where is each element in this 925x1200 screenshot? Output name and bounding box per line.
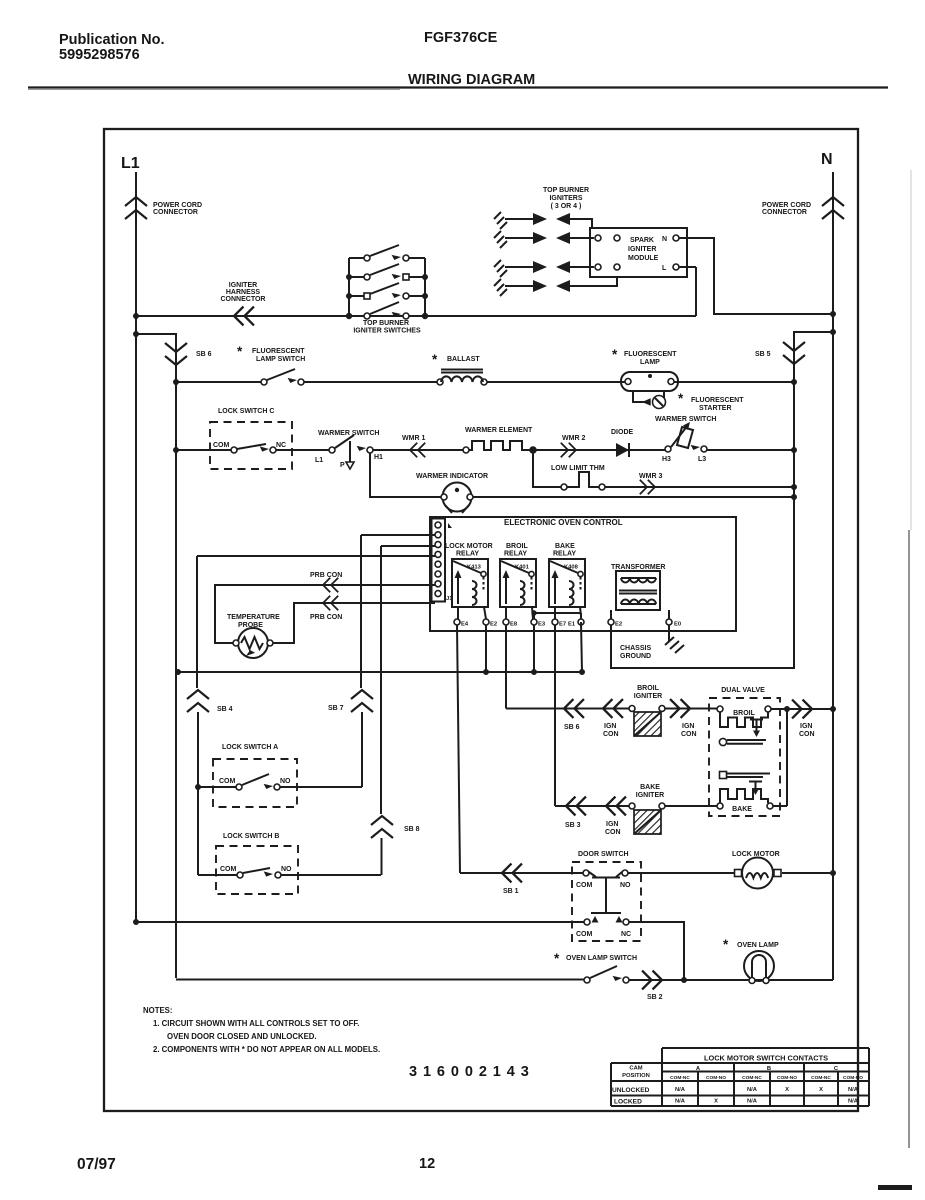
svg-text:GROUND: GROUND [620, 653, 651, 660]
svg-text:X: X [785, 1087, 789, 1093]
lock/warmer row wire y=450 [176, 449, 794, 451]
svg-text:OVEN LAMP SWITCH: OVEN LAMP SWITCH [566, 955, 637, 962]
broil row y=708.5 [506, 708, 833, 711]
svg-text:LOCK MOTOR SWITCH CONTACTS: LOCK MOTOR SWITCH CONTACTS [704, 1054, 828, 1063]
svg-text:WARMER SWITCH: WARMER SWITCH [318, 430, 379, 437]
svg-text:COM-NC: COM-NC [742, 1075, 762, 1081]
svg-text:E3: E3 [538, 622, 546, 628]
svg-text:IGNITER: IGNITER [229, 282, 257, 289]
svg-text:ELECTRONIC OVEN CONTROL: ELECTRONIC OVEN CONTROL [504, 518, 623, 527]
igniter switch 1 [349, 245, 425, 258]
bake armature [720, 772, 727, 779]
svg-text:NC: NC [621, 931, 631, 938]
svg-text:L1: L1 [121, 155, 140, 172]
svg-text:FGF376CE: FGF376CE [424, 30, 498, 46]
svg-text:E2: E2 [490, 622, 497, 628]
junction SB6 rail / warmer row [173, 447, 179, 453]
low limit thermostat [530, 447, 797, 490]
EOC harness wires to strip [197, 535, 435, 556]
connector SB 6 (broil) [564, 699, 584, 718]
wire L1 bus vertical [135, 172, 137, 922]
junction E2 / main feed [483, 669, 489, 675]
wire E8 rail to broil row [505, 625, 507, 709]
svg-text:LAMP SWITCH: LAMP SWITCH [256, 356, 305, 363]
wire E4 rail down to door switch row [457, 625, 460, 873]
broil solenoid crown [720, 712, 768, 727]
svg-text:HARNESS: HARNESS [226, 289, 261, 296]
svg-text:N/A: N/A [747, 1099, 758, 1105]
svg-text:COM: COM [219, 778, 236, 785]
svg-text:CAM: CAM [629, 1066, 642, 1072]
svg-text:COM: COM [576, 882, 593, 889]
svg-text:*: * [678, 391, 684, 406]
svg-text:N: N [662, 236, 667, 243]
connector WMR 1 [410, 443, 425, 457]
EOC terminal strip [432, 519, 446, 602]
connector WMR 2 [561, 443, 576, 457]
svg-text:WMR 3: WMR 3 [639, 473, 662, 480]
svg-text:FLUORESCENT: FLUORESCENT [691, 397, 744, 404]
bake row y=806 [555, 709, 787, 806]
svg-text:H3: H3 [662, 456, 671, 463]
svg-text:316002143: 316002143 [409, 1064, 535, 1080]
junction N bus y=314 [830, 311, 836, 317]
PRB CON wire upper [215, 585, 435, 643]
svg-text:SPARK: SPARK [630, 237, 654, 244]
svg-text:BROIL: BROIL [637, 685, 660, 692]
lock motor [732, 851, 781, 889]
svg-text:IGN: IGN [604, 723, 616, 730]
svg-text:07/97: 07/97 [77, 1156, 116, 1173]
svg-text:*: * [237, 344, 243, 359]
spark igniter module U1 [590, 228, 687, 277]
svg-text:COM-NO: COM-NO [843, 1075, 863, 1081]
connector SB 4 (up arrow) [187, 690, 209, 712]
page edge artifact line [908, 530, 910, 1148]
connector IGN CON (valve to N) [792, 700, 812, 719]
svg-text:CONNECTOR: CONNECTOR [221, 296, 266, 303]
svg-text:SB 5: SB 5 [755, 351, 771, 358]
top burner igniter row 2 [494, 231, 594, 248]
svg-text:IGNITER: IGNITER [634, 693, 662, 700]
bake relay K408 [549, 543, 585, 619]
svg-text:SB 1: SB 1 [503, 888, 519, 895]
left bus of switch bank [348, 258, 350, 316]
svg-text:PRB CON: PRB CON [310, 572, 342, 579]
transformer T1 [611, 564, 669, 619]
wire E2 to main line [485, 625, 487, 672]
fluorescent lamp [612, 347, 678, 391]
svg-text:FLUORESCENT: FLUORESCENT [624, 351, 677, 358]
svg-text:POWER CORD: POWER CORD [762, 202, 811, 209]
main L1 feed line y=672 [178, 671, 582, 673]
svg-text:SB 6: SB 6 [196, 351, 212, 358]
ballast [432, 352, 487, 385]
svg-text:COM: COM [213, 442, 230, 449]
junction SB6 rail / main feed [175, 669, 181, 675]
svg-text:CONNECTOR: CONNECTOR [762, 209, 807, 216]
svg-text:IGNITER: IGNITER [628, 246, 656, 253]
wire SB7 rail [361, 535, 362, 787]
broil igniter [629, 685, 665, 736]
svg-text:2. COMPONENTS WITH * DO NOT AP: 2. COMPONENTS WITH * DO NOT APPEAR ON AL… [153, 1045, 380, 1054]
svg-text:CHASSIS: CHASSIS [620, 645, 651, 652]
fluorescent lamp switch [237, 344, 305, 385]
svg-text:WIRING DIAGRAM: WIRING DIAGRAM [408, 72, 535, 88]
E3 to E1 tie wire [534, 613, 581, 619]
svg-text:IGNITER SWITCHES: IGNITER SWITCHES [353, 328, 421, 335]
junction L1/y316 [133, 313, 139, 319]
svg-text:OVEN DOOR CLOSED AND UNLOCKED.: OVEN DOOR CLOSED AND UNLOCKED. [167, 1032, 317, 1041]
svg-text:BALLAST: BALLAST [447, 356, 480, 363]
wire SB4 rail [197, 556, 198, 875]
warmer element [463, 427, 536, 453]
junction E3 / main feed [531, 669, 537, 675]
svg-text:BAKE: BAKE [555, 543, 575, 550]
svg-text:FLUORESCENT: FLUORESCENT [252, 348, 305, 355]
bake igniter [629, 784, 665, 834]
svg-text:POSITION: POSITION [622, 1073, 650, 1079]
temperature probe [227, 614, 280, 659]
bake solenoid crown [720, 789, 768, 803]
svg-text:N: N [821, 151, 833, 168]
svg-text:E8: E8 [510, 622, 518, 628]
svg-text:NOTES:: NOTES: [143, 1006, 172, 1015]
svg-text:Publication No.: Publication No. [59, 32, 165, 48]
svg-text:LOCKED: LOCKED [614, 1099, 642, 1106]
wire N from module y=314 [679, 238, 833, 314]
svg-text:DOOR SWITCH: DOOR SWITCH [578, 851, 629, 858]
svg-text:BROIL: BROIL [733, 710, 756, 717]
svg-text:SB 4: SB 4 [217, 706, 233, 713]
svg-text:NC: NC [276, 442, 286, 449]
connector IGN CON (bake) [606, 797, 626, 816]
svg-text:PRB CON: PRB CON [310, 614, 342, 621]
svg-text:BAKE: BAKE [732, 806, 752, 813]
top burner igniter row 4 [494, 277, 617, 296]
diagram border frame [104, 129, 858, 1111]
connector SB 2 [642, 971, 662, 990]
svg-text:*: * [554, 951, 560, 966]
svg-text:TRANSFORMER: TRANSFORMER [611, 564, 665, 571]
svg-text:COM-NC: COM-NC [811, 1075, 831, 1081]
svg-text:N/A: N/A [675, 1087, 686, 1093]
svg-text:CON: CON [603, 731, 619, 738]
svg-text:SB 3: SB 3 [565, 822, 581, 829]
wire E1 to main line [581, 622, 582, 672]
diode CR1 [611, 429, 634, 457]
svg-text:IGN: IGN [800, 723, 812, 730]
junction SB5 rail / lamp row [791, 379, 797, 385]
power cord connector (right) [822, 197, 844, 219]
igniter harness connector [234, 307, 254, 326]
dual valve [709, 687, 780, 816]
svg-text:IGN: IGN [606, 821, 618, 828]
svg-text:WARMER INDICATOR: WARMER INDICATOR [416, 473, 488, 480]
svg-text:COM-NC: COM-NC [670, 1075, 690, 1081]
svg-text:NO: NO [281, 866, 292, 873]
wire E3 to main line [533, 625, 535, 672]
connector WMR 3 [640, 480, 655, 494]
svg-text:CON: CON [605, 829, 621, 836]
svg-text:N/A: N/A [848, 1099, 859, 1105]
svg-text:E2: E2 [615, 622, 622, 628]
electronic oven control box [430, 517, 736, 631]
connector IGN CON (broil right) [670, 699, 690, 718]
connector IGN CON (broil left) [603, 699, 623, 718]
lock switch B [198, 833, 381, 894]
bottom right printer mark [878, 1185, 912, 1190]
svg-text:*: * [432, 352, 438, 367]
svg-text:IGNITERS: IGNITERS [549, 195, 582, 202]
junction N bus y=332 [830, 329, 836, 335]
svg-text:MODULE: MODULE [628, 255, 659, 262]
lock motor feed row y=873 [460, 872, 833, 874]
door switch lower row y=922 [136, 922, 684, 980]
wire L1 horizontal bus y=316 [136, 267, 696, 316]
svg-text:*: * [723, 937, 729, 952]
svg-text:X: X [819, 1087, 823, 1093]
svg-text:TEMPERATURE: TEMPERATURE [227, 614, 280, 621]
svg-text:RELAY: RELAY [553, 551, 576, 558]
svg-text:IGN: IGN [682, 723, 694, 730]
svg-text:BROIL: BROIL [506, 543, 529, 550]
svg-text:DUAL VALVE: DUAL VALVE [721, 687, 765, 694]
svg-text:CON: CON [681, 731, 697, 738]
svg-text:E1: E1 [568, 622, 576, 628]
power cord connector (left) [125, 197, 147, 219]
junction SB6 rail / lamp row [173, 379, 179, 385]
oven lamp [723, 937, 779, 984]
warmer switch (right) [655, 416, 716, 463]
connector SB 3 [566, 797, 586, 816]
top burner igniter row 3 [494, 260, 594, 277]
svg-text:SB 7: SB 7 [328, 705, 344, 712]
right bus of switch bank [424, 258, 426, 316]
lock switch A [195, 744, 362, 807]
svg-text:E4: E4 [461, 622, 469, 628]
connector SB 1 [502, 864, 522, 883]
svg-text:TOP BURNER: TOP BURNER [363, 320, 409, 327]
svg-text:P: P [340, 462, 345, 469]
svg-text:COM-NO: COM-NO [706, 1075, 726, 1081]
svg-text:B: B [767, 1066, 771, 1072]
connector SB 5 (down arrow) [783, 342, 805, 364]
svg-text:CON: CON [799, 731, 815, 738]
svg-text:SB 6: SB 6 [564, 724, 580, 731]
igniter switch 2 [349, 264, 425, 277]
wire N bus vertical [832, 172, 834, 980]
svg-text:WARMER SWITCH: WARMER SWITCH [655, 416, 716, 423]
warmer switch (left) [315, 430, 383, 469]
svg-text:STARTER: STARTER [699, 405, 732, 412]
svg-text:5995298576: 5995298576 [59, 47, 140, 63]
junction SB5 rail / L3 wire [791, 447, 797, 453]
svg-text:NO: NO [620, 882, 631, 889]
igniter switch 4 [370, 302, 399, 314]
fluorescent starter [633, 391, 744, 412]
svg-text:N/A: N/A [675, 1099, 686, 1105]
svg-text:COM: COM [220, 866, 237, 873]
svg-text:COM-NO: COM-NO [777, 1075, 797, 1081]
svg-text:COM: COM [576, 931, 593, 938]
lock motor switch contacts table [611, 1048, 869, 1106]
svg-text:RELAY: RELAY [456, 551, 479, 558]
junction broil/valve [784, 706, 790, 712]
PRB CON wire lower [273, 603, 435, 643]
svg-text:12: 12 [419, 1156, 435, 1172]
svg-text:OVEN LAMP: OVEN LAMP [737, 942, 779, 949]
svg-text:WMR 2: WMR 2 [562, 435, 585, 442]
svg-text:E0: E0 [674, 622, 681, 628]
fluorescent row wire y=382 [176, 381, 794, 383]
svg-text:LOCK SWITCH B: LOCK SWITCH B [223, 833, 279, 840]
svg-text:DIODE: DIODE [611, 429, 634, 436]
svg-text:L1: L1 [315, 457, 323, 464]
warmer indicator lamp [370, 453, 797, 513]
svg-text:N/A: N/A [848, 1087, 859, 1093]
wire SB8 rail [380, 546, 383, 875]
wire E7 rail to bake row [554, 625, 556, 806]
svg-text:UNLOCKED: UNLOCKED [612, 1087, 650, 1094]
svg-text:NO: NO [280, 778, 291, 785]
svg-text:*: * [612, 347, 618, 362]
svg-text:L3: L3 [698, 456, 706, 463]
svg-text:IGNITER: IGNITER [636, 792, 664, 799]
svg-text:RELAY: RELAY [504, 551, 527, 558]
svg-text:CONNECTOR: CONNECTOR [153, 209, 198, 216]
svg-text:E7: E7 [559, 622, 566, 628]
svg-text:TOP BURNER: TOP BURNER [543, 187, 589, 194]
junction E1 / main feed [579, 669, 585, 675]
svg-text:PROBE: PROBE [238, 622, 263, 629]
lock motor relay K413 [445, 543, 493, 619]
svg-text:N/A: N/A [747, 1087, 758, 1093]
svg-text:1. CIRCUIT SHOWN WITH ALL CONT: 1. CIRCUIT SHOWN WITH ALL CONTROLS SET T… [153, 1019, 359, 1028]
EOC terminals E4 E2 E8 E3 E7 E1 [454, 619, 681, 628]
svg-text:L: L [662, 265, 667, 272]
connector SB 7 (up arrow) [351, 690, 373, 712]
broil relay K401 [500, 543, 536, 619]
svg-text:LOCK SWITCH A: LOCK SWITCH A [222, 744, 278, 751]
igniter switch 3 [349, 283, 425, 296]
svg-text:X: X [714, 1099, 718, 1105]
svg-text:LOCK MOTOR: LOCK MOTOR [445, 543, 493, 550]
header rule [28, 86, 888, 88]
svg-text:LOCK SWITCH C: LOCK SWITCH C [218, 408, 274, 415]
svg-text:POWER CORD: POWER CORD [153, 202, 202, 209]
oven lamp row y=980 [176, 979, 833, 982]
wire branch L1 to SB6 rail [136, 334, 176, 978]
svg-text:( 3 OR 4 ): ( 3 OR 4 ) [551, 203, 582, 210]
svg-text:LAMP: LAMP [640, 359, 660, 366]
lock switch C [210, 408, 292, 469]
svg-text:H1: H1 [374, 454, 383, 461]
svg-text:BAKE: BAKE [640, 784, 660, 791]
wire branch N bus to SB5 rail [611, 332, 833, 668]
svg-text:LOW LIMIT THM: LOW LIMIT THM [551, 465, 605, 472]
oven lamp switch [554, 951, 637, 983]
top burner igniter row 1 [494, 212, 592, 229]
svg-text:SB 2: SB 2 [647, 994, 663, 1001]
chassis ground [620, 625, 684, 660]
top burner igniter switches block [346, 245, 428, 335]
svg-text:SB 8: SB 8 [404, 826, 420, 833]
svg-text:WARMER ELEMENT: WARMER ELEMENT [465, 427, 533, 434]
svg-text:WMR 1: WMR 1 [402, 435, 425, 442]
door switch [572, 851, 641, 941]
broil armature [719, 738, 726, 745]
connector SB 6 (down arrow) [165, 343, 187, 365]
connector SB 8 (up arrow) [371, 816, 393, 838]
